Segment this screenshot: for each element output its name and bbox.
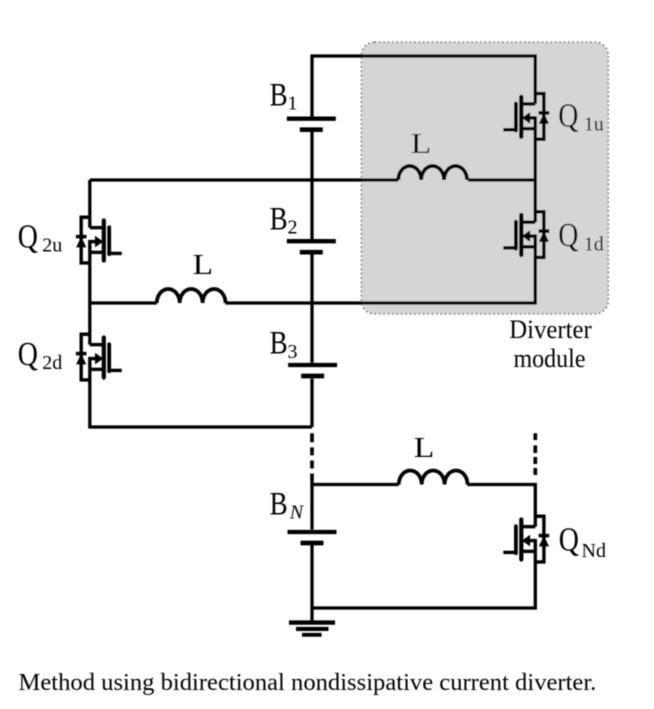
svg-text:Q: Q: [558, 215, 578, 253]
svg-text:B: B: [270, 485, 288, 522]
svg-text:2d: 2d: [42, 352, 62, 374]
svg-text:1d: 1d: [584, 233, 604, 255]
svg-text:1: 1: [288, 93, 298, 115]
svg-text:Q: Q: [18, 334, 38, 372]
svg-text:Q: Q: [559, 520, 579, 558]
svg-text:2u: 2u: [42, 235, 62, 257]
svg-text:Diverter: Diverter: [509, 315, 592, 344]
svg-text:1u: 1u: [584, 114, 604, 136]
svg-text:L: L: [193, 249, 214, 281]
svg-text:L: L: [414, 432, 435, 464]
svg-text:B: B: [270, 200, 288, 237]
svg-text:2: 2: [288, 217, 298, 239]
svg-text:Nd: Nd: [582, 540, 606, 562]
svg-text:L: L: [411, 128, 432, 160]
svg-text:Q: Q: [18, 217, 38, 255]
svg-text:Q: Q: [558, 96, 578, 134]
svg-text:N: N: [289, 501, 305, 523]
svg-text:B: B: [270, 76, 288, 113]
svg-text:3: 3: [288, 341, 298, 363]
svg-text:B: B: [270, 324, 288, 361]
svg-text:module: module: [514, 344, 586, 373]
svg-text:Method using bidirectional non: Method using bidirectional nondissipativ…: [19, 669, 597, 696]
